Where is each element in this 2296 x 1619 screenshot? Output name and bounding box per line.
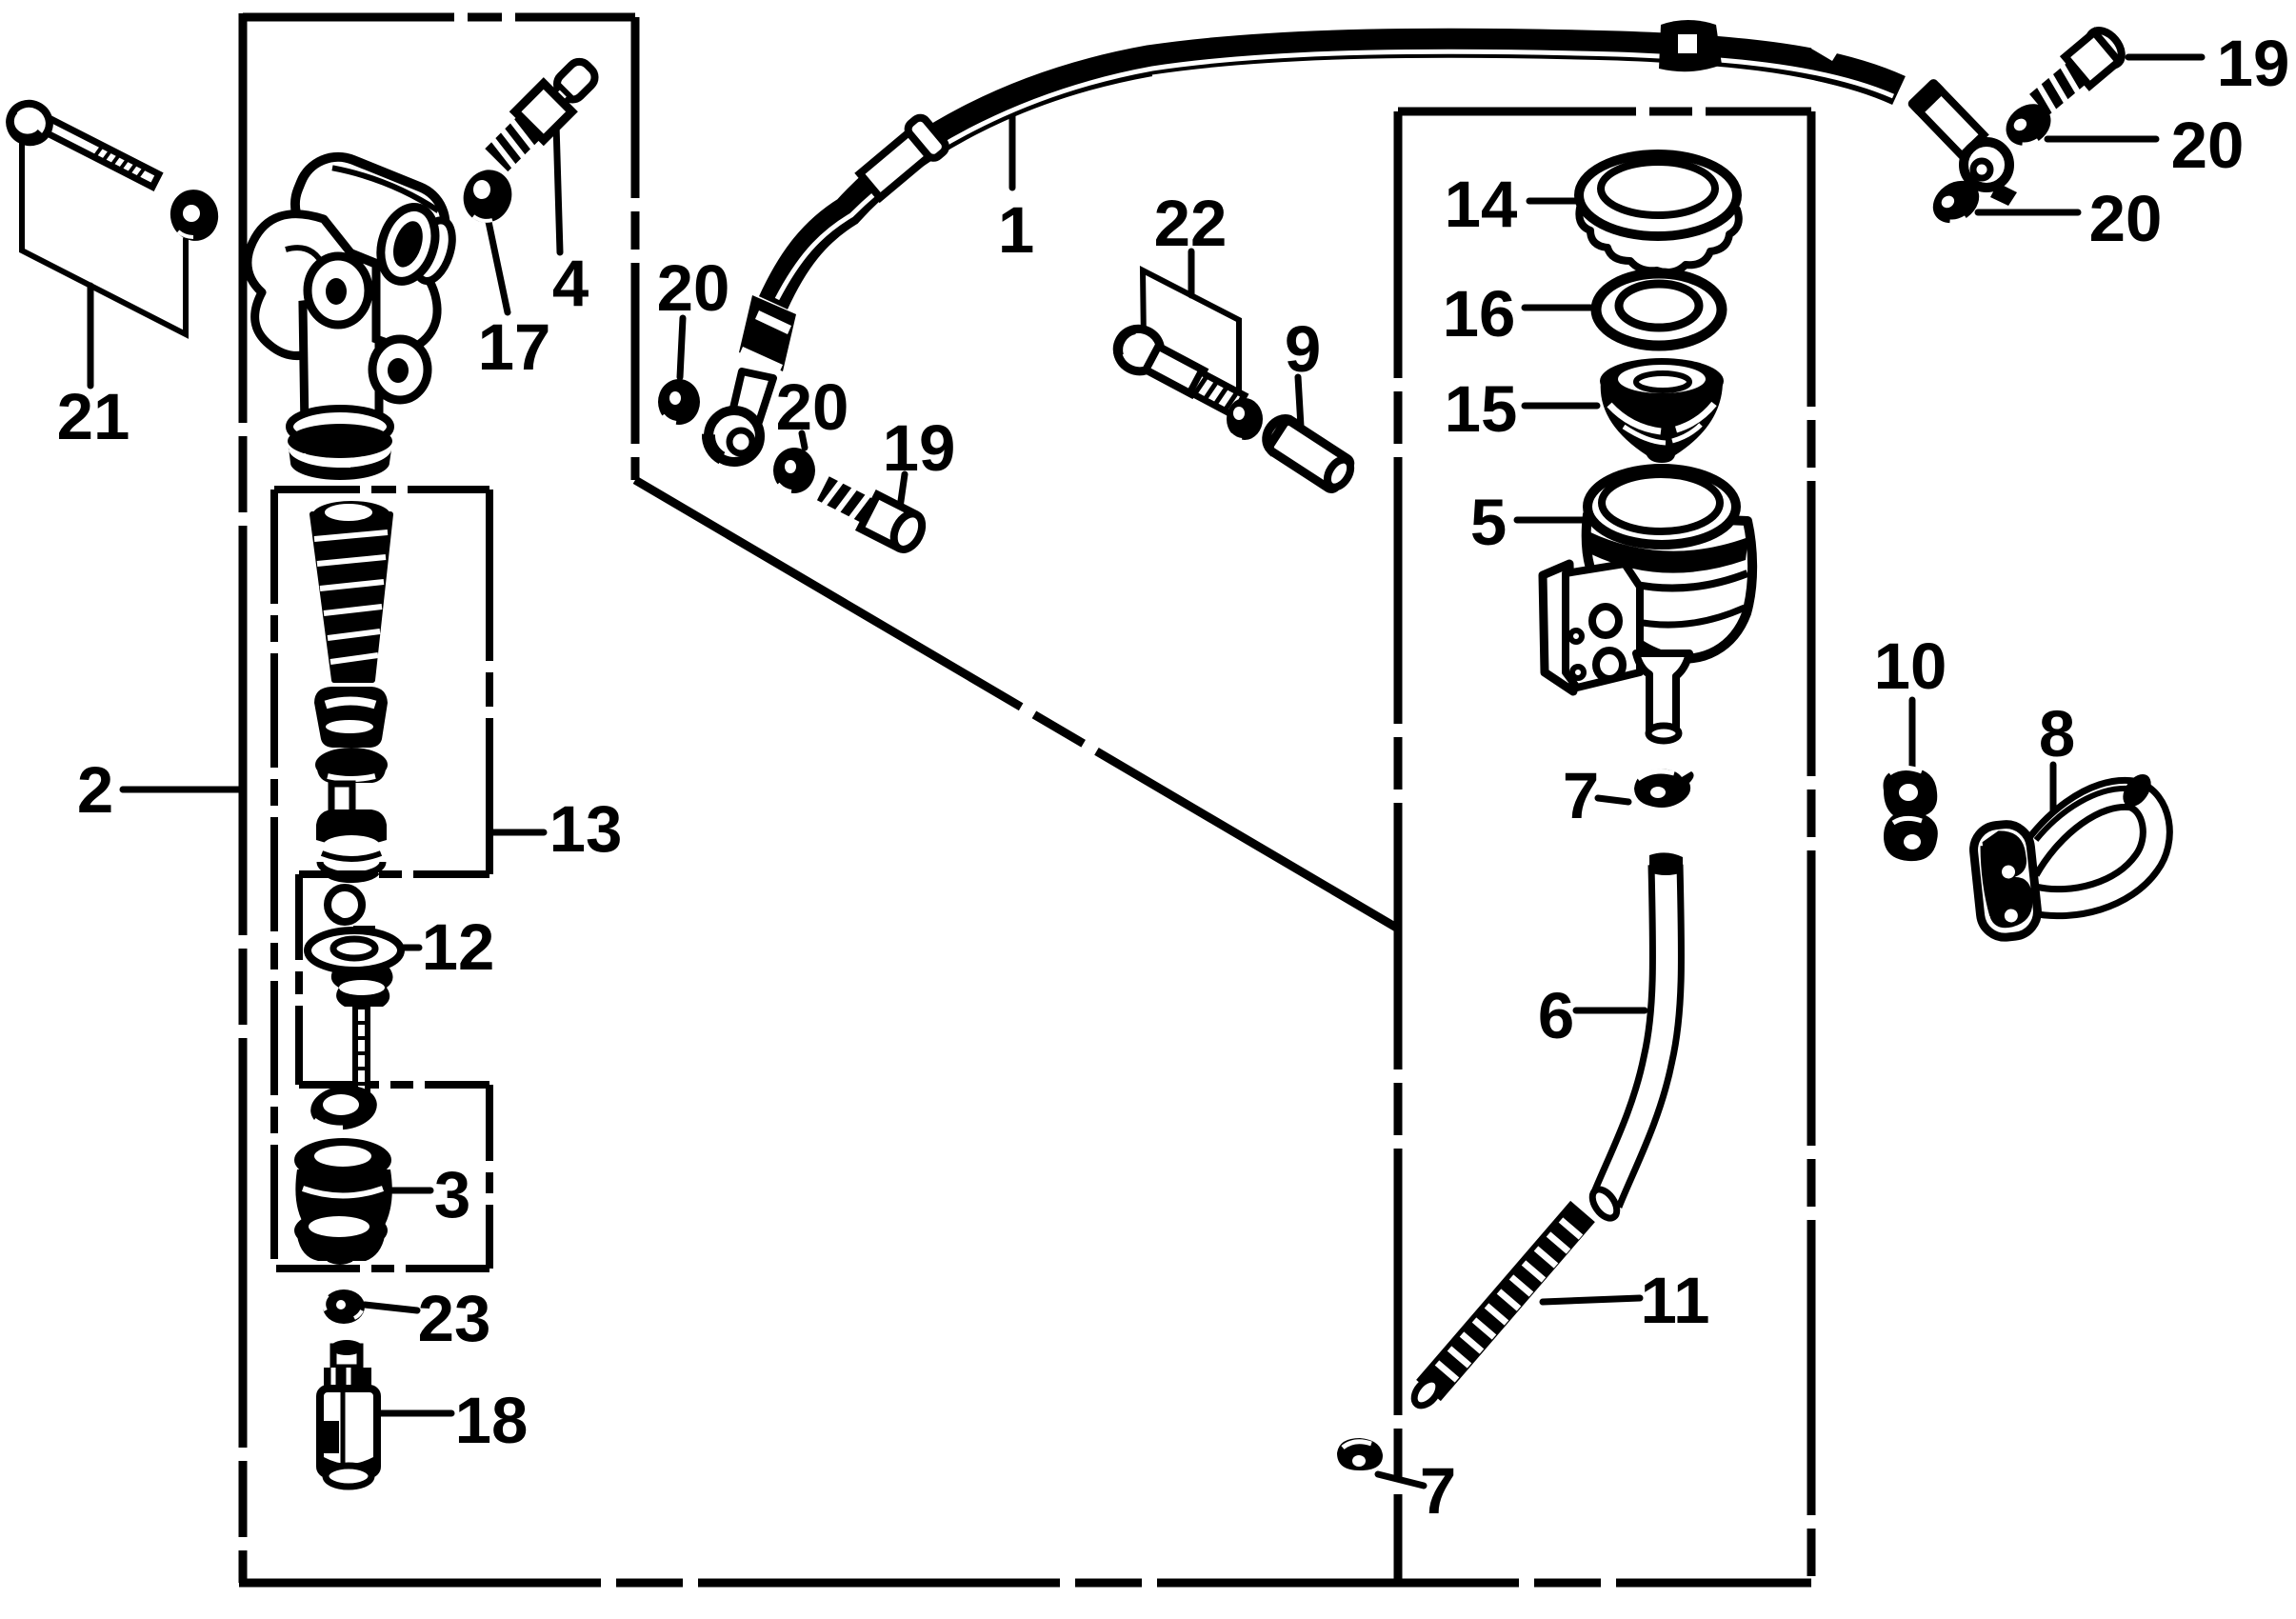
box 12 bottom edge: [299, 1081, 489, 1089]
leader 5: [1517, 517, 1587, 524]
leader 11: [1543, 1298, 1640, 1302]
left box top edge: [243, 13, 635, 22]
push rod 12: [308, 929, 401, 1122]
leader 19 right: [2128, 54, 2202, 61]
top cylinder: [283, 145, 457, 283]
nut 20 upper-left: [658, 379, 700, 425]
svg-text:6: 6: [1538, 979, 1574, 1052]
bracket for part 21: [22, 134, 186, 334]
piston (13 kit): [316, 784, 387, 880]
joint 18: [320, 1340, 377, 1487]
primary cup (13 kit): [315, 748, 388, 783]
leader 19 left: [899, 474, 905, 514]
svg-text:1: 1: [998, 193, 1034, 267]
nut of 22: [1227, 398, 1263, 440]
hose middle joint: [856, 114, 948, 202]
ball (12 kit): [328, 888, 362, 922]
bleed valve 4: [482, 52, 603, 173]
svg-text:10: 10: [1874, 630, 1947, 703]
left box right edge upper: [631, 17, 640, 480]
washer 20 right-upper: [1998, 95, 2059, 153]
left end collars: [739, 295, 796, 373]
svg-text:20: 20: [2089, 182, 2163, 255]
dark band below rim: [1588, 531, 1748, 573]
boot 3: [294, 1138, 392, 1262]
clamp 7 lower: [1337, 1438, 1383, 1470]
washer 20 right-lower: [1925, 172, 1987, 232]
svg-text:20: 20: [2171, 109, 2245, 182]
strap: [2025, 793, 2156, 902]
right box left edge: [1394, 111, 1403, 1584]
plate outline for part 22: [1143, 270, 1239, 400]
svg-text:15: 15: [1445, 372, 1518, 446]
svg-text:20: 20: [776, 370, 849, 444]
diagonal boundary to right box: [635, 480, 1398, 929]
box 3 bottom edge: [274, 1265, 489, 1272]
right banjo eye: [1964, 142, 2009, 188]
reservoir body 5: [1543, 469, 1752, 741]
leader 22: [1188, 251, 1195, 295]
left lobes: [248, 214, 353, 356]
leader 6: [1576, 1008, 1645, 1014]
leader 23: [365, 1305, 417, 1310]
leader 15: [1525, 403, 1597, 410]
washer 17: [456, 163, 519, 230]
bolt 19 left: [814, 471, 928, 554]
leader 17: [488, 217, 508, 312]
box 13 bottom edge: [299, 870, 489, 878]
svg-text:7: 7: [1563, 759, 1599, 832]
leader 2: [123, 787, 240, 793]
right bulge: [376, 264, 437, 350]
leader 20 right-lower: [1978, 210, 2078, 216]
washer of part 21: [165, 184, 224, 246]
leader 1: [1009, 108, 1016, 188]
svg-text:16: 16: [1443, 277, 1516, 350]
right bore (outlet) with end cap: [371, 200, 460, 293]
washer 20 lower-left: [773, 448, 815, 493]
diaphragm 15: [1600, 358, 1724, 463]
lock nut (above boot): [308, 1081, 380, 1133]
box 13 top edge: [274, 486, 489, 493]
leader 7 upper: [1598, 798, 1628, 802]
leader 9: [1298, 377, 1301, 427]
svg-text:19: 19: [2217, 27, 2290, 100]
box 13 right edge: [486, 490, 493, 874]
svg-text:23: 23: [418, 1282, 491, 1355]
right box top edge: [1398, 108, 1811, 116]
svg-text:20: 20: [657, 251, 730, 325]
leader 16: [1525, 305, 1590, 311]
mounting plate: [1971, 822, 2040, 940]
leader 10: [1909, 700, 1916, 768]
bracket rear plate: [1543, 564, 1573, 691]
brake hose 1: [709, 20, 2017, 462]
leader 12: [376, 945, 419, 951]
lower right boss: [372, 339, 428, 400]
shared bottom edge: [239, 1579, 1811, 1588]
hose clip at top: [1659, 20, 1722, 71]
spring hose guard 11: [1409, 1211, 1583, 1410]
leader 7 lower: [1378, 1474, 1424, 1486]
left box left edge: [239, 13, 248, 1583]
leader 18: [381, 1410, 451, 1417]
bolt 21: [4, 97, 160, 189]
svg-text:8: 8: [2039, 697, 2075, 770]
svg-text:11: 11: [1641, 1264, 1710, 1337]
leader 14: [1529, 198, 1577, 205]
bolt 19 right: [2026, 24, 2128, 119]
spring (part of 13 kit): [312, 501, 390, 680]
svg-text:12: 12: [422, 910, 495, 984]
leader 20 lower-left: [802, 433, 805, 448]
reservoir cap 14: [1579, 154, 1739, 272]
top rim: [1587, 469, 1736, 545]
leader 8: [2050, 765, 2057, 834]
svg-text:19: 19: [883, 411, 956, 485]
leader 3: [389, 1188, 430, 1194]
svg-text:3: 3: [434, 1158, 470, 1231]
svg-text:13: 13: [549, 792, 623, 866]
svg-text:14: 14: [1445, 168, 1518, 241]
left banjo eye: [709, 410, 760, 462]
svg-text:5: 5: [1470, 486, 1507, 559]
leader 13: [492, 829, 544, 836]
spacer cup (13 kit): [314, 687, 388, 748]
svg-text:9: 9: [1285, 312, 1321, 386]
joint 10: [1884, 768, 1938, 861]
chain vertical left of inner boxes: [270, 490, 278, 1269]
left end tube: [731, 371, 773, 422]
bracket front plate with holes: [1566, 564, 1640, 688]
svg-text:4: 4: [552, 247, 589, 320]
box 3 right edge: [486, 1085, 493, 1269]
seal ring 16: [1596, 273, 1722, 346]
leader 21: [88, 286, 94, 386]
box 12 left edge: [295, 874, 303, 1085]
hose clamp 8: [1971, 770, 2157, 940]
collar 9: [1257, 410, 1358, 495]
bolt 22: [1109, 321, 1263, 440]
svg-text:17: 17: [478, 310, 551, 384]
spigot rings at bottom: [289, 409, 390, 445]
leader 4: [556, 124, 560, 252]
right end tube: [1907, 77, 1987, 158]
funnel and nipple: [1636, 653, 1689, 733]
svg-text:2: 2: [77, 753, 113, 827]
leader 20 right-upper: [2047, 136, 2156, 143]
clamp 7 upper: [1634, 770, 1694, 808]
master cylinder body 2: [248, 145, 461, 480]
right box right edge: [1807, 111, 1816, 1584]
body: [1587, 514, 1752, 659]
front port boss: [308, 256, 369, 325]
svg-text:7: 7: [1420, 1454, 1456, 1528]
main vertical cylinder: [303, 295, 379, 437]
svg-text:21: 21: [57, 380, 130, 453]
leader 20 upper-left: [680, 318, 683, 377]
svg-text:18: 18: [455, 1384, 529, 1457]
hose 6: [1587, 852, 1683, 1222]
nut 23: [323, 1289, 365, 1324]
